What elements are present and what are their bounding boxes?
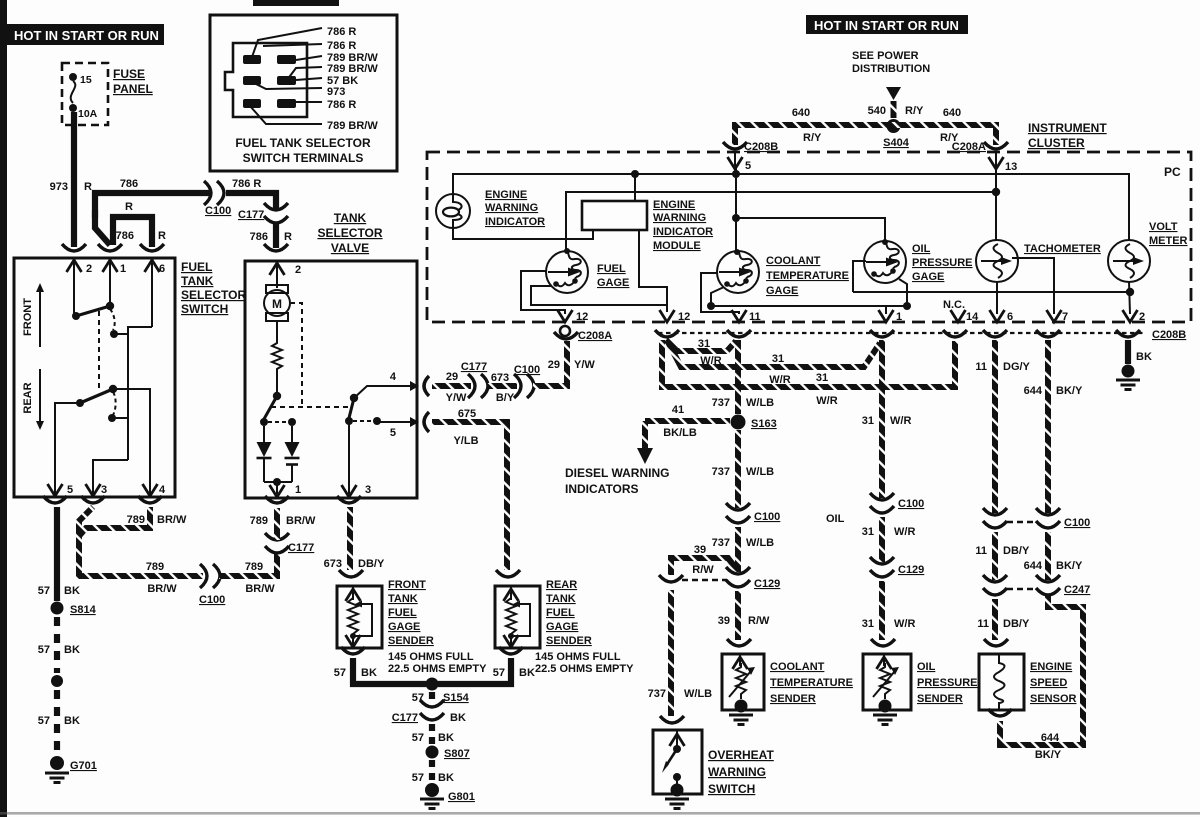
svg-text:644: 644 — [1041, 732, 1060, 744]
svg-text:57: 57 — [412, 772, 424, 784]
coolant pointer wire to pin 11 — [701, 273, 739, 314]
svg-text:DB/Y: DB/Y — [358, 558, 385, 570]
bottom edge line — [0, 812, 1200, 815]
svg-text:BK: BK — [519, 667, 535, 679]
svg-text:SENDER: SENDER — [770, 693, 816, 705]
svg-text:C247: C247 — [1064, 584, 1090, 596]
wire 737 W/LB to overheat switch — [668, 590, 674, 716]
svg-text:PANEL: PANEL — [113, 82, 153, 96]
pin 5 path — [377, 421, 411, 423]
svg-text:31: 31 — [862, 618, 874, 630]
svg-text:INDICATOR: INDICATOR — [653, 226, 713, 238]
svg-text:FUEL: FUEL — [546, 607, 575, 619]
diode bottoms join — [264, 481, 292, 483]
connector C177 — [264, 203, 288, 223]
connector C177 — [420, 700, 444, 720]
pin 5 arrow — [48, 484, 63, 496]
pin 1 arrow — [276, 482, 278, 494]
connector line C208B dotted — [658, 332, 1146, 334]
sensor bottom cup — [988, 709, 1012, 716]
svg-text:4: 4 — [390, 371, 397, 383]
svg-text:1: 1 — [896, 311, 902, 323]
rear arrow — [39, 369, 41, 426]
front sender bottom cup — [341, 647, 365, 654]
svg-text:DISTRIBUTION: DISTRIBUTION — [852, 63, 930, 75]
fuel tank selector switch box — [14, 258, 246, 497]
splice S807 — [426, 746, 439, 759]
wire 29 Y/W valve pin 4 to C208A — [442, 383, 471, 389]
svg-text:973: 973 — [50, 181, 68, 193]
svg-text:7: 7 — [1062, 311, 1068, 323]
svg-text:BK: BK — [438, 732, 454, 744]
pin 1 — [109, 258, 111, 303]
connector C100 — [870, 493, 894, 513]
wire 786 horizontal run — [95, 193, 210, 218]
svg-text:S814: S814 — [70, 604, 97, 616]
svg-text:BK/LB: BK/LB — [663, 427, 697, 439]
svg-text:GAGE: GAGE — [766, 285, 798, 297]
mechanical link dashed — [98, 311, 100, 390]
pin 5 internal path — [55, 403, 80, 497]
connector C177 — [468, 374, 488, 398]
svg-text:737: 737 — [712, 537, 730, 549]
connector C100 — [200, 564, 220, 588]
svg-text:R: R — [84, 181, 92, 193]
wire 31 W/R — [879, 517, 885, 562]
oil pressure gage — [864, 241, 906, 283]
svg-text:INDICATOR: INDICATOR — [485, 216, 545, 228]
svg-text:C100: C100 — [205, 205, 231, 217]
svg-text:12: 12 — [678, 311, 690, 323]
volt meter — [1108, 240, 1150, 282]
fuse panel — [62, 63, 153, 125]
svg-text:789: 789 — [245, 561, 263, 573]
terminal pin 3 — [243, 76, 261, 85]
oil pressure sender — [863, 654, 911, 713]
svg-text:Y/W: Y/W — [574, 359, 595, 371]
terminal pin 2 — [277, 55, 296, 64]
svg-text:SELECTOR: SELECTOR — [181, 288, 246, 302]
svg-text:644: 644 — [1024, 385, 1043, 397]
rail3 — [711, 305, 907, 307]
svg-text:57: 57 — [334, 667, 346, 679]
svg-text:FUSE: FUSE — [113, 67, 145, 81]
svg-text:DB/Y: DB/Y — [1003, 545, 1030, 557]
svg-text:SWITCH TERMINALS: SWITCH TERMINALS — [243, 151, 364, 165]
svg-text:BK: BK — [64, 715, 80, 727]
motor resistor — [272, 321, 282, 392]
svg-text:ENGINE: ENGINE — [653, 199, 695, 211]
svg-text:14: 14 — [966, 311, 979, 323]
junction pin5 rail — [732, 170, 740, 178]
svg-text:145 OHMS FULL: 145 OHMS FULL — [388, 651, 474, 663]
tachometer — [976, 240, 1018, 282]
svg-text:TACHOMETER: TACHOMETER — [1024, 243, 1101, 255]
svg-text:2: 2 — [86, 263, 92, 275]
ground G801 — [425, 783, 439, 797]
svg-text:57: 57 — [493, 667, 505, 679]
wire 31 W/R band to pin 1 — [668, 342, 880, 367]
svg-text:737: 737 — [712, 466, 730, 478]
wire 11 DB/Y — [992, 532, 998, 580]
svg-text:12: 12 — [576, 311, 588, 323]
svg-text:BR/W: BR/W — [286, 515, 316, 527]
pin5 vertical to coolant gage — [735, 166, 737, 251]
svg-text:11: 11 — [749, 311, 761, 323]
wire 11 DG/Y pin 6 down — [992, 340, 998, 513]
svg-text:BK/Y: BK/Y — [1056, 560, 1083, 572]
svg-text:540: 540 — [868, 105, 886, 117]
terminal pin 5 — [243, 99, 261, 108]
wire 57 BK switch pin5 to S814 — [54, 507, 60, 601]
svg-text:R/W: R/W — [748, 615, 770, 627]
pin 4 arrow — [143, 484, 158, 496]
svg-text:S807: S807 — [444, 748, 470, 760]
svg-text:TEMPERATURE: TEMPERATURE — [766, 270, 849, 282]
svg-text:786: 786 — [120, 178, 138, 190]
svg-text:PRESSURE: PRESSURE — [917, 677, 978, 689]
pin 6 — [151, 258, 153, 327]
svg-text:5: 5 — [390, 427, 396, 439]
svg-text:789 BR/W: 789 BR/W — [327, 120, 378, 132]
svg-text:BK: BK — [438, 772, 454, 784]
pin 3 internal path — [93, 460, 128, 497]
svg-text:145 OHMS FULL: 145 OHMS FULL — [535, 651, 621, 663]
wire 737 W/LB S163 to C100 — [735, 430, 741, 508]
svg-text:789 BR/W: 789 BR/W — [327, 63, 378, 75]
svg-text:15: 15 — [80, 74, 92, 86]
junction module top — [631, 170, 639, 178]
wire 786 R to valve pin 2 — [273, 224, 279, 248]
overheat warning switch — [653, 730, 702, 797]
svg-text:DIESEL WARNING: DIESEL WARNING — [565, 466, 669, 480]
svg-text:BK/Y: BK/Y — [1056, 385, 1083, 397]
wire 39 R/W to coolant sender — [735, 591, 741, 640]
svg-text:S154: S154 — [443, 692, 470, 704]
svg-text:G701: G701 — [70, 760, 97, 772]
svg-text:W/LB: W/LB — [684, 688, 712, 700]
svg-text:5: 5 — [745, 160, 751, 172]
svg-text:BK: BK — [64, 644, 80, 656]
svg-text:789: 789 — [127, 514, 145, 526]
wire 789 BR/W to valve pin 1 — [219, 554, 277, 576]
svg-text:11: 11 — [977, 618, 989, 630]
wire 973 R fuse to switch pin 2 — [71, 112, 77, 247]
coolant coil wire to rail3 — [711, 287, 724, 306]
svg-text:737: 737 — [648, 688, 666, 700]
svg-text:TANK: TANK — [334, 211, 367, 225]
svg-text:644: 644 — [1024, 560, 1043, 572]
rear sender bottom cup — [499, 647, 523, 654]
svg-text:31: 31 — [816, 372, 828, 384]
svg-text:C129: C129 — [898, 564, 924, 576]
svg-text:SENSOR: SENSOR — [1030, 693, 1077, 705]
connector C208A below pin 12a — [560, 326, 570, 336]
svg-text:31: 31 — [862, 415, 874, 427]
svg-text:3: 3 — [101, 484, 107, 496]
connector C100 — [983, 508, 1007, 528]
svg-text:R: R — [125, 201, 133, 213]
svg-text:31: 31 — [772, 353, 784, 365]
svg-text:31: 31 — [698, 338, 710, 350]
instrument cluster dashed box — [427, 152, 1191, 322]
svg-text:BR/W: BR/W — [147, 583, 177, 595]
svg-text:BK: BK — [64, 585, 80, 597]
svg-text:C100: C100 — [754, 511, 780, 523]
terminal pin 6 — [277, 99, 296, 108]
pin 3 arrow — [86, 484, 101, 496]
pin 12b arrow — [660, 310, 675, 322]
wire 540 R/Y — [891, 101, 897, 118]
svg-text:BK: BK — [1136, 351, 1152, 363]
svg-text:BR/W: BR/W — [245, 583, 275, 595]
svg-text:2: 2 — [295, 264, 301, 276]
svg-text:OVERHEAT: OVERHEAT — [708, 748, 774, 762]
svg-text:W/R: W/R — [894, 618, 915, 630]
connector C100 — [1036, 508, 1060, 528]
svg-text:C100: C100 — [1064, 517, 1090, 529]
terminal pin 4 — [277, 76, 296, 85]
svg-text:INSTRUMENT: INSTRUMENT — [1028, 121, 1107, 135]
svg-text:W/R: W/R — [890, 415, 911, 427]
svg-text:FRONT: FRONT — [22, 298, 34, 336]
splice S163 — [731, 415, 746, 430]
svg-text:CLUSTER: CLUSTER — [1028, 136, 1085, 150]
wire 789 BR/W horizontal run to C100 — [79, 570, 203, 576]
svg-text:M: M — [272, 297, 282, 311]
valve pin 4 cup — [424, 376, 429, 396]
svg-text:SENDER: SENDER — [388, 635, 434, 647]
motor M — [266, 285, 288, 293]
diode 2 — [291, 426, 293, 442]
svg-text:C129: C129 — [754, 578, 780, 590]
svg-text:TANK: TANK — [546, 593, 576, 605]
wire 673 B/Y — [487, 383, 517, 389]
diode 1 — [263, 426, 265, 442]
wire 29 Y/W up to C208A — [533, 341, 567, 386]
connector outline — [225, 43, 307, 117]
wire 789 BR/W from switch pin 4 — [79, 507, 150, 536]
pin 11 arrow — [732, 310, 747, 322]
svg-text:FRONT: FRONT — [388, 579, 426, 591]
wire 57 BK dashed segment — [54, 690, 60, 755]
svg-text:57: 57 — [38, 715, 50, 727]
svg-text:ENGINE: ENGINE — [1030, 661, 1072, 673]
svg-text:HOT IN START OR RUN: HOT IN START OR RUN — [14, 28, 159, 43]
wire 31 W/R band pin12 to pin11 — [666, 340, 736, 351]
svg-text:673: 673 — [491, 372, 509, 384]
svg-text:39: 39 — [694, 544, 706, 556]
wire 644 BK/Y return loop — [1000, 596, 1083, 745]
svg-text:29: 29 — [446, 371, 458, 383]
svg-text:6: 6 — [1007, 311, 1013, 323]
fuel gage — [546, 251, 588, 293]
coolant temperature sender — [722, 654, 764, 713]
svg-text:6: 6 — [159, 263, 165, 275]
lamp bottom wire to module — [453, 228, 593, 239]
splice — [51, 675, 63, 687]
wire BK pin 2 to ground C208B — [1125, 340, 1131, 364]
tank selector valve box — [245, 261, 419, 498]
wire 57 BK rear sender to S154 — [438, 658, 511, 684]
pin 2 — [73, 258, 75, 313]
connector C208A into cluster — [984, 142, 1008, 149]
border bar left — [0, 0, 7, 817]
wire 39 R/W branch to overheat — [671, 558, 738, 575]
svg-text:S404: S404 — [883, 137, 910, 149]
svg-text:COOLANT: COOLANT — [766, 255, 821, 267]
svg-text:57: 57 — [412, 732, 424, 744]
svg-text:1: 1 — [295, 484, 301, 496]
connector C100 — [204, 181, 224, 205]
splice S404 — [887, 119, 901, 133]
svg-text:640: 640 — [943, 107, 961, 119]
svg-text:SENDER: SENDER — [546, 635, 592, 647]
tach bottom to pin 6 — [996, 282, 998, 314]
leader lines — [252, 28, 322, 57]
svg-text:N.C.: N.C. — [943, 299, 965, 311]
svg-text:C208B: C208B — [1152, 329, 1186, 341]
svg-text:737: 737 — [712, 397, 730, 409]
svg-text:57: 57 — [38, 585, 50, 597]
svg-text:OIL: OIL — [917, 661, 936, 673]
wire 644 BK/Y pin 7 down — [1045, 340, 1051, 513]
svg-text:VOLT: VOLT — [1149, 221, 1178, 233]
svg-text:BK/Y: BK/Y — [1035, 749, 1062, 761]
svg-text:C177: C177 — [461, 361, 487, 373]
wire 31 W/R band to pin 14 — [662, 340, 955, 387]
svg-text:HOT IN START OR RUN: HOT IN START OR RUN — [814, 18, 959, 33]
svg-text:WARNING: WARNING — [708, 765, 766, 779]
svg-text:ENGINE: ENGINE — [485, 189, 527, 201]
svg-text:2: 2 — [1139, 311, 1145, 323]
svg-text:WARNING: WARNING — [653, 212, 706, 224]
dashed link from motor — [290, 303, 302, 407]
svg-text:786 R: 786 R — [327, 99, 356, 111]
svg-text:BK: BK — [450, 712, 466, 724]
svg-text:C208A: C208A — [952, 141, 986, 153]
wire 737 W/LB below C100 — [735, 527, 741, 572]
svg-text:41: 41 — [672, 404, 684, 416]
svg-text:4: 4 — [159, 484, 166, 496]
left contact arm — [264, 396, 277, 419]
svg-text:COOLANT: COOLANT — [770, 661, 825, 673]
svg-text:786: 786 — [250, 231, 268, 243]
svg-text:BR/W: BR/W — [157, 514, 187, 526]
svg-text:SWITCH: SWITCH — [181, 302, 228, 316]
pin 3 path — [348, 421, 350, 494]
switch pin cups — [62, 244, 86, 251]
fuel gage coil wire — [531, 286, 667, 305]
lower contact — [76, 399, 84, 407]
valve pin 5 cup — [424, 412, 429, 432]
wire 789 BR/W from switch pin 3 — [79, 507, 93, 572]
svg-text:22.5 OHMS EMPTY: 22.5 OHMS EMPTY — [535, 663, 634, 675]
top edge artifact — [253, 0, 339, 6]
svg-text:FUEL: FUEL — [597, 263, 626, 275]
svg-text:OIL: OIL — [912, 243, 931, 255]
connector C129 — [726, 567, 750, 587]
rail4 to voltmeter — [853, 291, 1130, 293]
connector C177 — [265, 533, 289, 553]
tach pointer to pin 7 — [1012, 258, 1054, 314]
connector C100 — [514, 374, 534, 398]
cluster interior rail 1 — [453, 174, 1129, 240]
svg-text:786 R: 786 R — [327, 40, 356, 52]
svg-text:11: 11 — [975, 545, 987, 557]
svg-text:TANK: TANK — [388, 593, 418, 605]
pin 12a arrow — [558, 310, 573, 322]
svg-text:SELECTOR: SELECTOR — [317, 226, 382, 240]
svg-text:3: 3 — [365, 484, 371, 496]
fuel gage pointer wire to pin 12a — [521, 271, 565, 314]
svg-text:FUEL: FUEL — [181, 260, 212, 274]
svg-text:REAR: REAR — [546, 579, 577, 591]
switch pin 5 cup below — [43, 496, 67, 503]
svg-text:C177: C177 — [238, 209, 264, 221]
wire 41 BK/LB branch — [645, 418, 730, 424]
svg-text:C100: C100 — [199, 594, 225, 606]
rear tank fuel gage sender — [495, 586, 540, 648]
svg-text:W/R: W/R — [894, 526, 915, 538]
svg-text:S163: S163 — [751, 418, 777, 430]
module bottom wire to pin 12 — [639, 230, 667, 312]
svg-text:METER: METER — [1149, 235, 1188, 247]
switch pin 3 cup below — [81, 496, 105, 503]
wire 640 R/Y bus — [735, 125, 996, 145]
svg-text:786: 786 — [116, 230, 134, 242]
wire 673 DB/Y valve pin 3 to front sender — [347, 507, 353, 570]
svg-text:786 R: 786 R — [232, 178, 261, 190]
svg-text:OIL: OIL — [826, 513, 845, 525]
svg-text:W/R: W/R — [816, 395, 837, 407]
svg-text:C100: C100 — [898, 498, 924, 510]
connector C208B into cluster — [723, 142, 747, 149]
svg-text:C208A: C208A — [578, 330, 612, 342]
engine speed sensor — [979, 654, 1024, 710]
svg-text:789: 789 — [250, 515, 268, 527]
svg-text:REAR: REAR — [22, 382, 34, 413]
label HOT IN START OR RUN (left) — [7, 24, 164, 45]
svg-text:FUEL TANK SELECTOR: FUEL TANK SELECTOR — [235, 136, 371, 150]
switch pin 4 cup below — [138, 496, 162, 503]
oil pointer wire to rail4 — [853, 261, 866, 292]
svg-text:MODULE: MODULE — [653, 240, 701, 252]
svg-text:789: 789 — [146, 561, 164, 573]
splice S814 — [51, 602, 64, 615]
svg-text:R: R — [158, 230, 166, 242]
svg-text:C177: C177 — [288, 542, 314, 554]
svg-text:39: 39 — [718, 615, 730, 627]
svg-text:WARNING: WARNING — [485, 202, 538, 214]
connector C129 — [870, 557, 894, 577]
connector C247 — [1036, 575, 1060, 595]
voltmeter bottom to pin 2 — [1129, 282, 1130, 314]
module top wire — [634, 174, 636, 201]
svg-text:R/Y: R/Y — [803, 132, 822, 144]
svg-text:DG/Y: DG/Y — [1003, 361, 1031, 373]
wire 786 jumper pins 1-6 — [113, 217, 152, 247]
svg-text:TEMPERATURE: TEMPERATURE — [770, 677, 853, 689]
pin 2 arrow — [276, 261, 278, 288]
wire 57 BK dashed segment — [54, 617, 60, 673]
svg-text:INDICATORS: INDICATORS — [565, 482, 639, 496]
svg-text:29: 29 — [548, 359, 560, 371]
upper contact — [72, 312, 80, 320]
svg-text:PRESSURE: PRESSURE — [912, 257, 973, 269]
svg-text:W/LB: W/LB — [746, 397, 774, 409]
wire 786 branch to switch pin 1 — [95, 210, 110, 245]
